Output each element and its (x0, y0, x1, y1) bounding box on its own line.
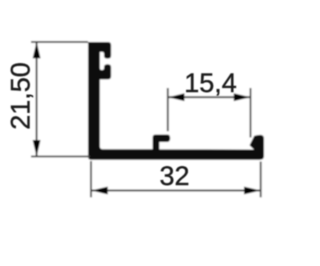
dimension 21,50 : bottom arrowhead (33, 140, 41, 157)
aluminum profile cross-section (filled outline) (89, 43, 264, 160)
dimension 21,50 : top extension line (31, 41, 88, 43)
dimension 32 : horizontal dimension line (91, 190, 260, 192)
dimension 21,50 : top arrowhead (33, 42, 41, 59)
dimension 15,4 : right arrowhead (234, 93, 251, 101)
dimension 15,4 : horizontal dimension line (168, 96, 250, 98)
dimension 32 : left extension line (90, 161, 92, 197)
svg-text:21,50: 21,50 (6, 62, 36, 130)
dimension 15,4 : right extension line (250, 88, 252, 138)
dimension 21,50 : bottom extension line (31, 155, 90, 157)
dimension 32 : left arrowhead (91, 187, 108, 195)
dimension 21,50 : vertical dimension line (36, 42, 38, 156)
dimension 15,4 : left arrowhead (168, 93, 185, 101)
svg-text:15,4: 15,4 (184, 68, 237, 98)
dimension 32 : right arrowhead (244, 187, 261, 195)
dimension 32 : right extension line (260, 162, 262, 198)
svg-text:32: 32 (159, 161, 189, 191)
dimension 15,4 : left extension line (167, 88, 169, 131)
